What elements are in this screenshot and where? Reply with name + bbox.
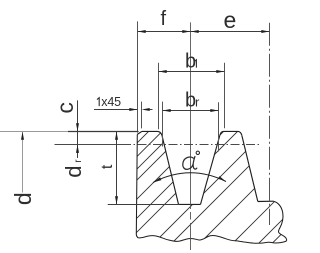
svg-text:r: r [195, 94, 200, 109]
arrow t top (up) [115, 132, 118, 140]
extension line: b1 right, x=224.6 [224, 63, 226, 128]
outer diameter line (crest level extension) light part [0, 131, 68, 133]
right tooth right flank (partial groove) [242, 135, 258, 201]
dr half dimension line at x=77.3 (to datum line) [77, 145, 79, 158]
arrow e left [191, 30, 199, 33]
groove right flank [201, 136, 220, 205]
label dr (rotated) [61, 159, 86, 178]
arrow b1 right [216, 70, 224, 73]
arc arrowhead left [153, 177, 161, 182]
left tooth crest [142, 131, 162, 135]
svg-text:c: c [52, 102, 78, 114]
arrow d (up, tip at OD line) [21, 132, 24, 140]
right tooth crest [220, 131, 242, 135]
label alpha [183, 157, 197, 170]
1x45 chamfer leader at y=109.8 [94, 109, 137, 111]
material outline: chamfer, crests, flanks, groove root, break edge, wavy break line, end face [136, 131, 286, 243]
datum pitch line dash-dot y=144.1 [122, 144, 259, 146]
outer diameter line dark part to corner [68, 131, 139, 133]
extension line: b1 left, x=158.5 [158, 63, 160, 129]
d half dimension line at x=22.1 (to OD line), light [22, 132, 24, 193]
extension line: br right, x=218.6 [218, 102, 220, 151]
extension line: groove centre, x=190.4 [190, 22, 192, 209]
svg-text:x45: x45 [101, 95, 121, 109]
root level extension line y=204.4 [108, 204, 179, 206]
dimension line f (137.2 to 190.4) + e (190.4 to 269.3) at y=31.7 [138, 31, 270, 33]
arrow c (down, tip at OD line) [76, 123, 79, 131]
arrow dr (up, tip at datum line) [76, 145, 79, 153]
end face (left edge of pulley) [136, 134, 138, 237]
extension line: e right, dash-dot x=269.3 [269, 23, 271, 225]
svg-text:d: d [10, 192, 36, 205]
chamfer outside arrow (points left, tip x=141.3) [142, 108, 150, 111]
svg-text:d: d [61, 165, 86, 177]
svg-text:f: f [161, 8, 167, 30]
arrow f right [182, 30, 190, 33]
t dimension line at x=116.6 [116, 132, 118, 205]
arrow t bottom (down) [115, 196, 118, 204]
arrow br left [163, 109, 171, 112]
arrow br right [210, 109, 218, 112]
groove root [179, 203, 201, 205]
right break edge [274, 201, 287, 243]
arrow e right [261, 30, 269, 33]
svg-text:r: r [73, 159, 84, 163]
chamfer 1x45 on left tooth corner [137, 131, 142, 134]
arrow to chamfer (points right, tip x=137) [129, 108, 137, 111]
svg-text:e: e [224, 7, 237, 33]
arc arrowhead right [218, 176, 226, 181]
svg-text:t: t [99, 164, 116, 169]
groove angle arc [153, 173, 226, 183]
extension line: f left / chamfer start, x=137.2 [137, 21, 139, 132]
c dimension line at x=77.3 [77, 100, 79, 144]
extension line: chamfer right, x=141.1 [141, 102, 143, 129]
extension line: br left, x=162.4 [162, 102, 164, 147]
arrow f left [138, 30, 146, 33]
dimension line br at y=110.4 [163, 110, 219, 112]
dimension line b1 at y=71.4 [159, 71, 225, 73]
groove left flank [162, 136, 179, 205]
arrow b1 left [159, 70, 167, 73]
hatching 45-degree lines [27, 110, 320, 253]
centre line dash-dot tail [190, 212, 192, 250]
datum line extension (solid left part) y=144.1 [55, 144, 123, 146]
partial groove root [258, 200, 274, 202]
bottom wavy break line [138, 236, 275, 244]
label 1x45 [97, 98, 99, 106]
degree mark [196, 151, 199, 154]
